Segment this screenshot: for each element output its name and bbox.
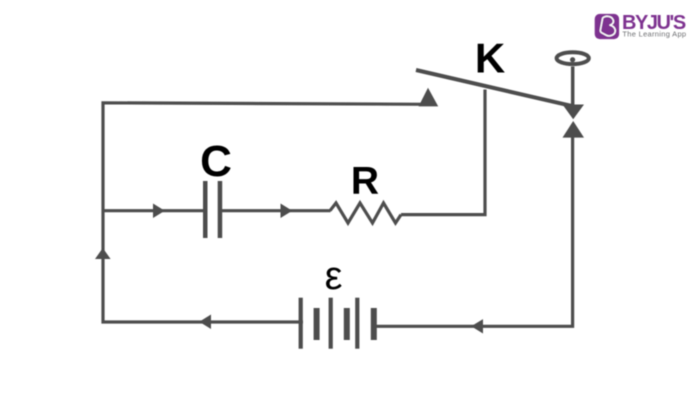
switch K blade xyxy=(416,70,575,107)
switch terminal ellipse xyxy=(557,52,589,64)
arrow right on middle wire (after C) xyxy=(281,204,293,219)
arrow right on middle wire (before C) xyxy=(153,204,165,219)
wire: switch down to middle branch xyxy=(401,90,485,215)
arrow up on left vertical wire xyxy=(95,248,111,259)
svg-text:ε: ε xyxy=(325,254,343,298)
battery cell long plate 2 xyxy=(329,298,333,349)
stub from ellipse to contact xyxy=(571,67,575,106)
BYJU'S logo badge xyxy=(595,14,619,39)
resistor R zigzag xyxy=(330,203,401,223)
terminal dot xyxy=(570,57,575,62)
BYJU'S logo B icon xyxy=(600,16,615,36)
svg-text:C: C xyxy=(200,137,232,186)
wire: middle branch left (to capacitor) xyxy=(103,209,203,212)
battery cell short plate 1 xyxy=(314,308,320,340)
battery cell short plate 3 xyxy=(371,308,377,340)
arrow left on bottom left wire xyxy=(199,315,211,330)
capacitor C plates xyxy=(203,181,208,238)
arrow up at end of top wire (switch contact) xyxy=(419,88,439,107)
wire: between capacitor and resistor xyxy=(222,209,331,212)
battery cell long plate 3 xyxy=(355,298,359,349)
wire: right vertical + bottom right xyxy=(377,137,573,326)
arrow left on bottom right wire xyxy=(471,319,483,333)
battery cell long plate 1 xyxy=(299,298,303,349)
svg-text:The Learning App: The Learning App xyxy=(622,30,686,39)
svg-text:K: K xyxy=(475,35,505,82)
wire: top + left + bottom-left loop xyxy=(103,103,430,322)
contact triangle down xyxy=(563,105,585,120)
svg-text:R: R xyxy=(351,160,379,203)
contact triangle up xyxy=(563,121,585,138)
battery cell short plate 2 xyxy=(344,308,350,340)
